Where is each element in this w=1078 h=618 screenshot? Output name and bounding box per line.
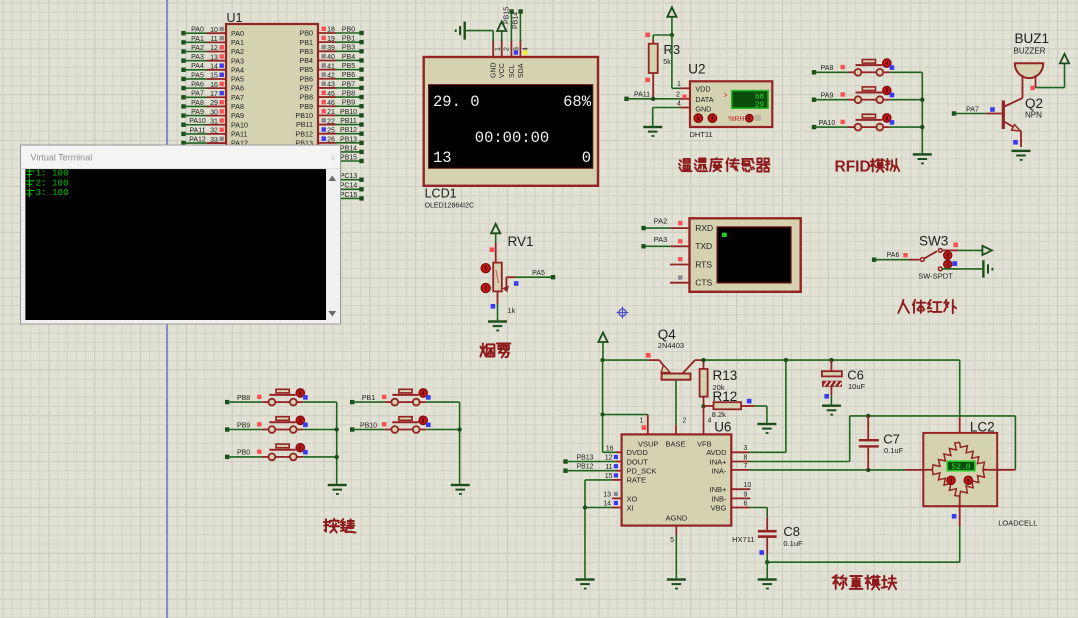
C7 labels [883, 432, 903, 456]
svg-text:PA3: PA3 [654, 235, 668, 244]
svg-text:PA2: PA2 [654, 217, 668, 226]
RFID common wire [920, 72, 924, 153]
power terminal (SW3) [982, 246, 992, 255]
annotation RFID模拟 [835, 159, 900, 176]
svg-text:AVDD: AVDD [706, 448, 727, 457]
svg-text:SW-SPDT: SW-SPDT [918, 272, 953, 281]
svg-text:RATE: RATE [627, 476, 646, 485]
U6 pin 1 number/state [640, 418, 647, 430]
power terminal (U2 VDD rail) [667, 7, 676, 35]
svg-text:PD_SCK: PD_SCK [627, 467, 657, 476]
LCD1 pin 4 number and state [523, 47, 530, 55]
U2 pin 2 number and state [676, 92, 686, 99]
svg-text:XO: XO [627, 494, 638, 503]
svg-text:PA6: PA6 [191, 82, 204, 89]
svg-text:PA11: PA11 [231, 130, 248, 139]
svg-text:18: 18 [327, 27, 335, 34]
SW3 reference label [919, 234, 948, 249]
ground (C6) [822, 405, 841, 416]
svg-text:VDD: VDD [695, 85, 710, 94]
svg-text:15: 15 [210, 73, 218, 80]
svg-text:68%: 68% [563, 93, 592, 111]
U1 pin PB14 wire and terminal [318, 145, 364, 154]
svg-text:>: > [724, 93, 728, 100]
U1 pin PA8 (pin 29) wire and terminal [181, 100, 244, 111]
svg-text:42: 42 [327, 72, 335, 79]
svg-text:LC2: LC2 [970, 420, 995, 435]
U6 top pin names [638, 440, 712, 449]
svg-text:2: 2 [504, 47, 511, 51]
svg-text:1: 1 [640, 418, 644, 425]
svg-text:30: 30 [210, 109, 218, 116]
label PB15 (rotated) [504, 7, 511, 24]
svg-text:SW3: SW3 [919, 234, 948, 249]
svg-text:NPN: NPN [1025, 111, 1042, 120]
push button PA10 [812, 114, 923, 131]
svg-text:LOADCELL: LOADCELL [998, 519, 1037, 528]
switch SW3 [920, 249, 942, 271]
U1 pin PB0 (pin 18) wire and terminal [299, 26, 363, 37]
svg-text:16: 16 [210, 82, 218, 89]
svg-text:13: 13 [210, 54, 218, 61]
U1 pin PC14 wire and terminal [318, 183, 364, 192]
svg-text:25: 25 [327, 127, 335, 134]
sensor U2 body [690, 81, 772, 127]
ground (keys left) [328, 484, 347, 495]
wire PA6 to SW3 [872, 252, 920, 262]
svg-text:GND: GND [695, 104, 711, 113]
origin marker [617, 307, 629, 319]
wire PB12 to PD_SCK [563, 464, 621, 473]
U1 pin PA4 (pin 14) wire and terminal [181, 63, 244, 74]
U1 pin PA6 (pin 16) wire and terminal [181, 82, 244, 93]
U1 pin PB4 (pin 40) wire and terminal [299, 54, 363, 65]
svg-text:17: 17 [210, 91, 218, 98]
svg-text:PA0: PA0 [191, 27, 204, 34]
resistor R12 [704, 399, 767, 423]
svg-text:26: 26 [327, 137, 335, 144]
capacitor C6 [822, 360, 842, 404]
svg-text:PA8: PA8 [191, 100, 204, 107]
svg-text:7: 7 [744, 463, 748, 470]
svg-text:RFID: RFID [835, 159, 871, 176]
svg-text:13: 13 [603, 491, 611, 498]
U1 pin PB1 (pin 19) wire and terminal [299, 36, 363, 47]
svg-text:C8: C8 [783, 524, 800, 539]
RV1 top lead [490, 243, 496, 263]
U1 pin PB13 (pin 26) wire and terminal [295, 136, 363, 147]
svg-text:PA6: PA6 [231, 84, 244, 93]
svg-text:DHT11: DHT11 [690, 130, 713, 139]
svg-text:2N4403: 2N4403 [658, 341, 684, 350]
capacitor C8 [758, 530, 777, 562]
U6 right pin names [706, 448, 727, 513]
LCD1 body [424, 57, 598, 186]
svg-text:Q4: Q4 [658, 327, 677, 342]
U6 left pin names [627, 448, 657, 513]
virtual terminal window [21, 145, 341, 324]
LCD1 pin names GND VCC SCL SDA [491, 62, 525, 78]
svg-text:32: 32 [210, 128, 218, 135]
svg-text:PA4: PA4 [191, 63, 204, 70]
U1 pin PB11 (pin 22) wire and terminal [296, 118, 364, 129]
U6 pin 16 number [606, 445, 614, 452]
svg-text:x: x [331, 153, 336, 164]
svg-text:PB1: PB1 [362, 395, 375, 402]
svg-text:PB15: PB15 [504, 7, 511, 24]
svg-text:PB14: PB14 [513, 12, 520, 29]
svg-text:PA9: PA9 [191, 109, 204, 116]
svg-text:PB12: PB12 [340, 127, 357, 134]
power terminal (BUZ1) [1060, 54, 1069, 64]
svg-text:RV1: RV1 [508, 234, 534, 249]
svg-text:9: 9 [744, 491, 748, 498]
U2 reference label [688, 62, 705, 77]
svg-text:PA4: PA4 [231, 65, 244, 74]
svg-text:DOUT: DOUT [627, 457, 649, 466]
VBG wire [731, 500, 767, 530]
RV1 bottom lead [491, 291, 498, 320]
svg-text:PA0: PA0 [231, 29, 244, 38]
AGND wire [670, 526, 676, 579]
LC2 value label LOADCELL [998, 519, 1037, 528]
resistor R3 [649, 44, 658, 73]
keys left common wire [335, 402, 339, 484]
wire PB13 to DOUT [563, 454, 621, 463]
svg-text:2: 2 [676, 92, 680, 99]
svg-text:AGND: AGND [666, 514, 688, 523]
INB+ stub [731, 482, 751, 489]
ground (keys right) [451, 484, 470, 495]
svg-text:PB11: PB11 [340, 118, 357, 125]
svg-text:1k: 1k [508, 306, 516, 315]
svg-text:PB8: PB8 [237, 395, 250, 402]
svg-text:PA8: PA8 [231, 102, 244, 111]
U6 pin 4 number [708, 418, 712, 425]
svg-text:C6: C6 [847, 368, 864, 383]
push button PA8 [812, 59, 923, 76]
LC2 left lead [905, 469, 932, 471]
AVDD wire [731, 360, 786, 452]
svg-text:PB13: PB13 [576, 454, 593, 461]
push button PB10 [350, 416, 460, 433]
LC2 reference label [970, 420, 995, 435]
svg-text:5: 5 [670, 537, 674, 544]
svg-text:10uF: 10uF [848, 382, 866, 391]
Q2 emitter state square [1013, 140, 1018, 145]
LCD1 pin 3 number and state [513, 47, 520, 55]
U6 reference label [714, 420, 731, 435]
serial module pin names [695, 223, 713, 288]
svg-text:SDA: SDA [518, 63, 525, 78]
top rail wire [603, 358, 960, 362]
U1 pin PA7 (pin 17) wire and terminal [181, 91, 244, 102]
U1 pin PB7 (pin 43) wire and terminal [299, 81, 363, 92]
U1 pin PA0 (pin 10) wire and terminal [181, 27, 244, 38]
svg-text:11: 11 [210, 36, 217, 43]
potentiometer RV1 body [493, 263, 502, 292]
U2 GND wire [653, 108, 690, 126]
svg-text:PC14: PC14 [340, 183, 358, 190]
svg-text:10: 10 [744, 482, 752, 489]
svg-text:HX711: HX711 [732, 535, 754, 544]
U1 pin PB10 (pin 21) wire and terminal [295, 109, 363, 120]
svg-text:BUZ1: BUZ1 [1015, 31, 1050, 46]
svg-text:INA+: INA+ [710, 457, 728, 466]
U1 pin PB9 (pin 46) wire and terminal [299, 100, 363, 111]
wire PA2 to RXD [641, 217, 689, 231]
svg-text:PB4: PB4 [342, 54, 355, 61]
state square R3 top [645, 33, 650, 38]
U1 pin PB8 (pin 45) wire and terminal [299, 90, 363, 101]
label PA11 [634, 92, 650, 99]
svg-text:12: 12 [210, 45, 218, 52]
RATE wire [585, 473, 622, 578]
ground (SW3, rotated) [982, 260, 993, 277]
svg-text:DATA: DATA [695, 95, 713, 104]
svg-text:8: 8 [744, 454, 748, 461]
svg-text:PA10: PA10 [189, 118, 206, 125]
power terminal (LCD1 VCC) [497, 22, 506, 32]
svg-text:INB-: INB- [712, 494, 728, 503]
RTS stub [670, 257, 690, 265]
svg-text:C7: C7 [883, 432, 900, 447]
svg-text:TXD: TXD [695, 241, 712, 251]
svg-text:PB9: PB9 [237, 422, 250, 429]
annotation 人体红外 [898, 300, 956, 313]
svg-text:46: 46 [327, 100, 335, 107]
LCD1 screen [429, 85, 593, 169]
svg-text:PA7: PA7 [191, 91, 204, 98]
svg-text:PA2: PA2 [191, 45, 204, 52]
BUZ1 right lead wire to power [1031, 64, 1065, 91]
U1 pin PB15 wire and terminal [318, 154, 364, 163]
svg-text:PB7: PB7 [299, 84, 313, 93]
U1 pin PA3 (pin 13) wire and terminal [181, 54, 244, 65]
left rail to VSUP/DVDD [600, 360, 647, 452]
svg-text:PA9: PA9 [821, 93, 834, 100]
svg-text:29: 29 [755, 102, 764, 110]
svg-text:3: 100: 3: 100 [36, 187, 69, 198]
svg-text:%RH: %RH [728, 116, 744, 123]
U1 pin PB6 (pin 42) wire and terminal [299, 72, 363, 83]
U6 pin 2 number [683, 418, 687, 425]
R12 labels [712, 389, 738, 419]
R3 bottom lead [645, 73, 653, 99]
svg-text:PA7: PA7 [231, 93, 244, 102]
resistor R13 [700, 362, 708, 409]
power terminal (U6 rail) [598, 333, 607, 363]
svg-text:PB10: PB10 [295, 111, 313, 120]
U6 VFB wire [703, 406, 705, 434]
Q4 state square [646, 353, 651, 358]
svg-text:41: 41 [327, 63, 335, 70]
Q2 labels [1025, 96, 1043, 120]
svg-text:PB6: PB6 [299, 74, 313, 83]
microcontroller U1 label [227, 11, 243, 25]
svg-text:11: 11 [605, 464, 612, 471]
svg-text:0.1uF: 0.1uF [884, 446, 904, 455]
svg-text:R13: R13 [713, 368, 738, 383]
push button PB1 [350, 389, 460, 406]
svg-text:OLED12864I2C: OLED12864I2C [425, 203, 474, 210]
LCD1 pin 4 wire to PB14 [518, 9, 522, 57]
svg-text:6: 6 [744, 500, 748, 507]
U1 pin PC13 wire and terminal [318, 173, 364, 182]
svg-text:PA8: PA8 [821, 65, 834, 72]
svg-text:PB9: PB9 [342, 100, 355, 107]
ground (RATE/XI) [576, 578, 595, 589]
svg-text:19: 19 [327, 36, 335, 43]
svg-text:PB13: PB13 [340, 136, 357, 143]
buzzer BUZ1 labels [1014, 31, 1050, 56]
svg-text:DVDD: DVDD [627, 448, 649, 457]
svg-text:BUZZER: BUZZER [1014, 47, 1046, 56]
svg-text:PB5: PB5 [299, 65, 313, 74]
svg-text:U6: U6 [714, 420, 731, 435]
loadcell LC2 body [923, 433, 997, 506]
svg-text:PA2: PA2 [231, 47, 244, 56]
RV1 wiper and wire PA5 [502, 270, 555, 293]
svg-text:2: 2 [683, 418, 687, 425]
svg-text:39: 39 [327, 45, 335, 52]
ground (U2) [643, 126, 662, 137]
svg-text:Virtual Terminal: Virtual Terminal [31, 153, 93, 163]
svg-text:SCL: SCL [509, 64, 516, 78]
serial module screen [717, 227, 791, 283]
LCD1 pin 1 wire to ground [466, 31, 493, 57]
LCD1 value label [425, 203, 474, 210]
wire PA7 to Q2 base [952, 107, 1002, 116]
svg-text:52.0: 52.0 [951, 463, 970, 472]
INB- stub [731, 491, 750, 498]
INA- wire [731, 463, 905, 472]
RV1 labels [508, 234, 534, 315]
svg-text:LCD1: LCD1 [425, 187, 457, 201]
svg-text:PB12: PB12 [576, 464, 593, 471]
C6 labels [847, 368, 865, 392]
svg-text:0.1uF: 0.1uF [783, 539, 803, 548]
U1 pin PA12 (pin 33) wire and terminal [181, 136, 248, 147]
svg-text:U1: U1 [227, 11, 243, 25]
svg-text:PB7: PB7 [342, 81, 355, 88]
transistor Q4 [659, 360, 695, 380]
svg-text:PA10: PA10 [819, 120, 836, 127]
U2 pin names [695, 85, 713, 114]
XI wire [583, 500, 622, 509]
ground (C8) [758, 578, 777, 589]
svg-text:PA5: PA5 [191, 72, 204, 79]
INA+ wire [731, 414, 1015, 470]
svg-text:PA10: PA10 [231, 120, 248, 129]
U1 pin PA11 (pin 32) wire and terminal [181, 127, 247, 138]
svg-text:33: 33 [210, 137, 218, 144]
U1 pin PA2 (pin 12) wire and terminal [181, 45, 244, 56]
U2 pin 4 number [677, 100, 681, 107]
annotation 按键 [324, 519, 356, 533]
annotation 温湿度传感器 [679, 158, 770, 172]
svg-text:PB1: PB1 [299, 38, 313, 47]
svg-text:PA5: PA5 [532, 270, 545, 277]
ground (RV1) [488, 320, 507, 331]
svg-text:68: 68 [755, 94, 764, 102]
svg-text:1: 1 [677, 81, 681, 88]
XO stub [603, 491, 621, 498]
LCD1 pin 2 number [504, 47, 511, 51]
svg-text:VCC: VCC [499, 63, 506, 78]
svg-text:40: 40 [327, 54, 335, 61]
svg-text:3: 3 [744, 445, 748, 452]
svg-text:R12: R12 [713, 389, 738, 404]
svg-text:PA9: PA9 [231, 111, 244, 120]
RV1 buttons [481, 264, 490, 293]
svg-text:14: 14 [210, 64, 218, 71]
svg-text:4: 4 [677, 100, 681, 107]
svg-text:10: 10 [210, 27, 218, 34]
svg-text:PA3: PA3 [191, 54, 204, 61]
label PA7 [966, 106, 979, 113]
wire rail to R3 and VDD [653, 33, 674, 44]
svg-text:PB15: PB15 [340, 154, 357, 161]
LC2 buttons [947, 476, 973, 484]
svg-text:PA7: PA7 [966, 106, 979, 113]
ground (RFID) [913, 153, 932, 164]
svg-text:0: 0 [582, 149, 591, 167]
svg-text:15: 15 [605, 473, 613, 480]
svg-text:Q2: Q2 [1025, 96, 1043, 111]
svg-text:PA3: PA3 [231, 56, 244, 65]
svg-text:14: 14 [603, 500, 611, 507]
chip U6 body [622, 434, 732, 525]
svg-text:INB+: INB+ [710, 485, 728, 494]
svg-text:12: 12 [605, 455, 613, 462]
svg-text:5k: 5k [663, 59, 671, 66]
svg-text:45: 45 [327, 91, 335, 98]
C8 labels [783, 524, 803, 548]
svg-text:PA1: PA1 [231, 38, 244, 47]
svg-text:PA5: PA5 [231, 75, 244, 84]
svg-text:VBG: VBG [711, 504, 727, 513]
svg-text:29: 29 [210, 100, 218, 107]
LC2 display [947, 461, 975, 472]
svg-text:22: 22 [327, 118, 335, 125]
svg-text:PC13: PC13 [340, 173, 358, 180]
wire PA11 to U2 DATA [624, 97, 690, 101]
keys right common wire [457, 402, 461, 484]
svg-text:GND: GND [491, 62, 498, 78]
ground (Q2) [1012, 150, 1031, 161]
svg-text:PC15: PC15 [340, 192, 358, 199]
svg-text:PA11: PA11 [634, 92, 650, 99]
svg-text:4: 4 [708, 418, 712, 425]
svg-text:CTS: CTS [695, 278, 712, 288]
push button PB9 [225, 416, 337, 433]
LC2 bottom lead [952, 496, 960, 562]
buzzer BUZ1 [1015, 63, 1044, 78]
BUZ1 left lead wire [1022, 75, 1024, 98]
LCD1 reference label [425, 187, 457, 201]
U1 pin PC15 wire and terminal [318, 192, 364, 201]
push button PB0 [225, 444, 337, 461]
CTS stub [670, 275, 690, 282]
transistor Q2 [1003, 98, 1022, 147]
U6 AGND name [666, 514, 688, 523]
svg-text:PA12: PA12 [189, 136, 206, 143]
C8 bottom junction and wires [765, 560, 960, 578]
svg-text:13: 13 [433, 149, 452, 167]
ground (LCD1 GND) [455, 22, 466, 40]
U1 pin PB12 (pin 25) wire and terminal [295, 127, 363, 138]
